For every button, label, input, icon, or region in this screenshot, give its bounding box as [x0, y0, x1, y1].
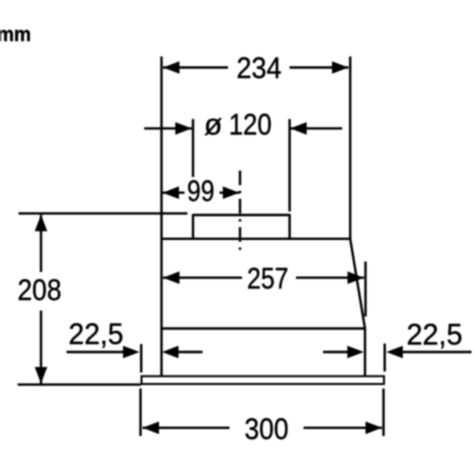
- dimension line 257 right segment: [296, 277, 364, 279]
- arrow 208 pointing down: [35, 367, 48, 384]
- arrow 300 left: [143, 422, 160, 435]
- arrow 257 left: [163, 271, 180, 284]
- svg-text:300: 300: [245, 413, 289, 446]
- arrow 257 right: [348, 271, 365, 284]
- dimension line 208 lower segment: [40, 311, 42, 384]
- dimension line 257 left segment: [163, 277, 242, 279]
- inner tail 22,5 right: [323, 351, 349, 353]
- extension line top of dim 208: [19, 212, 188, 214]
- duct stub right edge: [288, 214, 290, 239]
- dimension line 300 left segment: [143, 427, 230, 429]
- svg-text:99: 99: [187, 175, 215, 208]
- extension line inner-right of dim ø120 / duct stub right edge: [288, 119, 290, 212]
- hood body right slanted edge: [350, 239, 365, 329]
- extension line left of dim 300 (below plate): [139, 389, 141, 437]
- arrow 99 pointing right: [223, 186, 240, 199]
- extension line right of dim 300 (below plate): [382, 389, 384, 437]
- arrow 22,5 right pointing left: [386, 346, 403, 359]
- mounting plate: [142, 376, 385, 384]
- extension line right of dim 257: [364, 262, 366, 317]
- extension line inner-left of dim ø120 (upper part): [192, 119, 194, 177]
- svg-text:208: 208: [18, 274, 62, 307]
- svg-text:mm: mm: [0, 24, 31, 46]
- dimension line 234 left segment: [163, 66, 228, 68]
- duct stub top edge: [193, 214, 290, 216]
- arrow ø120 pointing left: [290, 122, 307, 135]
- svg-text:257: 257: [247, 262, 289, 295]
- svg-text:120: 120: [229, 108, 272, 141]
- arrow 22,5 left pointing right: [123, 346, 140, 359]
- arrow 22,5 left inner pointing left: [162, 346, 179, 359]
- inner tail 22,5 left: [177, 351, 203, 353]
- extension line right of dim 234: [349, 57, 351, 240]
- dimension line ø120 right tail: [290, 127, 342, 129]
- extension line for dim 22,5 left (above plate): [140, 344, 142, 373]
- svg-text:ø: ø: [204, 108, 222, 141]
- extension line bottom of dim 208: [18, 383, 141, 385]
- arrow 99 pointing left: [163, 186, 180, 199]
- duct stub left edge: [192, 214, 194, 239]
- extension line for dim 22,5 right (above plate): [384, 344, 386, 372]
- dimension line 234 right segment: [290, 66, 349, 68]
- arrow 234 right: [332, 61, 349, 74]
- centerline of duct (dash-dot): [239, 171, 241, 251]
- arrow 22,5 right inner pointing right: [347, 346, 364, 359]
- hood body top edge: [162, 238, 351, 240]
- hood body right lower edge: [364, 329, 366, 377]
- dimension line 99 left segment: [163, 191, 185, 193]
- arrow 234 left: [163, 61, 180, 74]
- extension line left of dim 234 / body left edge: [160, 57, 162, 377]
- hood body interior line: [162, 327, 366, 329]
- dimension line 208 upper segment: [40, 215, 42, 272]
- dimension line 300 right segment: [304, 427, 383, 429]
- arrow ø120 pointing right: [175, 122, 192, 135]
- dimension line ø120 left tail: [144, 127, 192, 129]
- leader line 22,5 right: [403, 351, 472, 353]
- dimension line 99 right segment: [220, 191, 240, 193]
- arrow 208 pointing up: [35, 215, 48, 232]
- leader line 22,5 left: [67, 351, 125, 353]
- arrow 300 right: [366, 422, 383, 435]
- svg-text:22,5: 22,5: [407, 319, 463, 352]
- svg-text:22,5: 22,5: [69, 318, 124, 351]
- svg-text:234: 234: [237, 52, 282, 85]
